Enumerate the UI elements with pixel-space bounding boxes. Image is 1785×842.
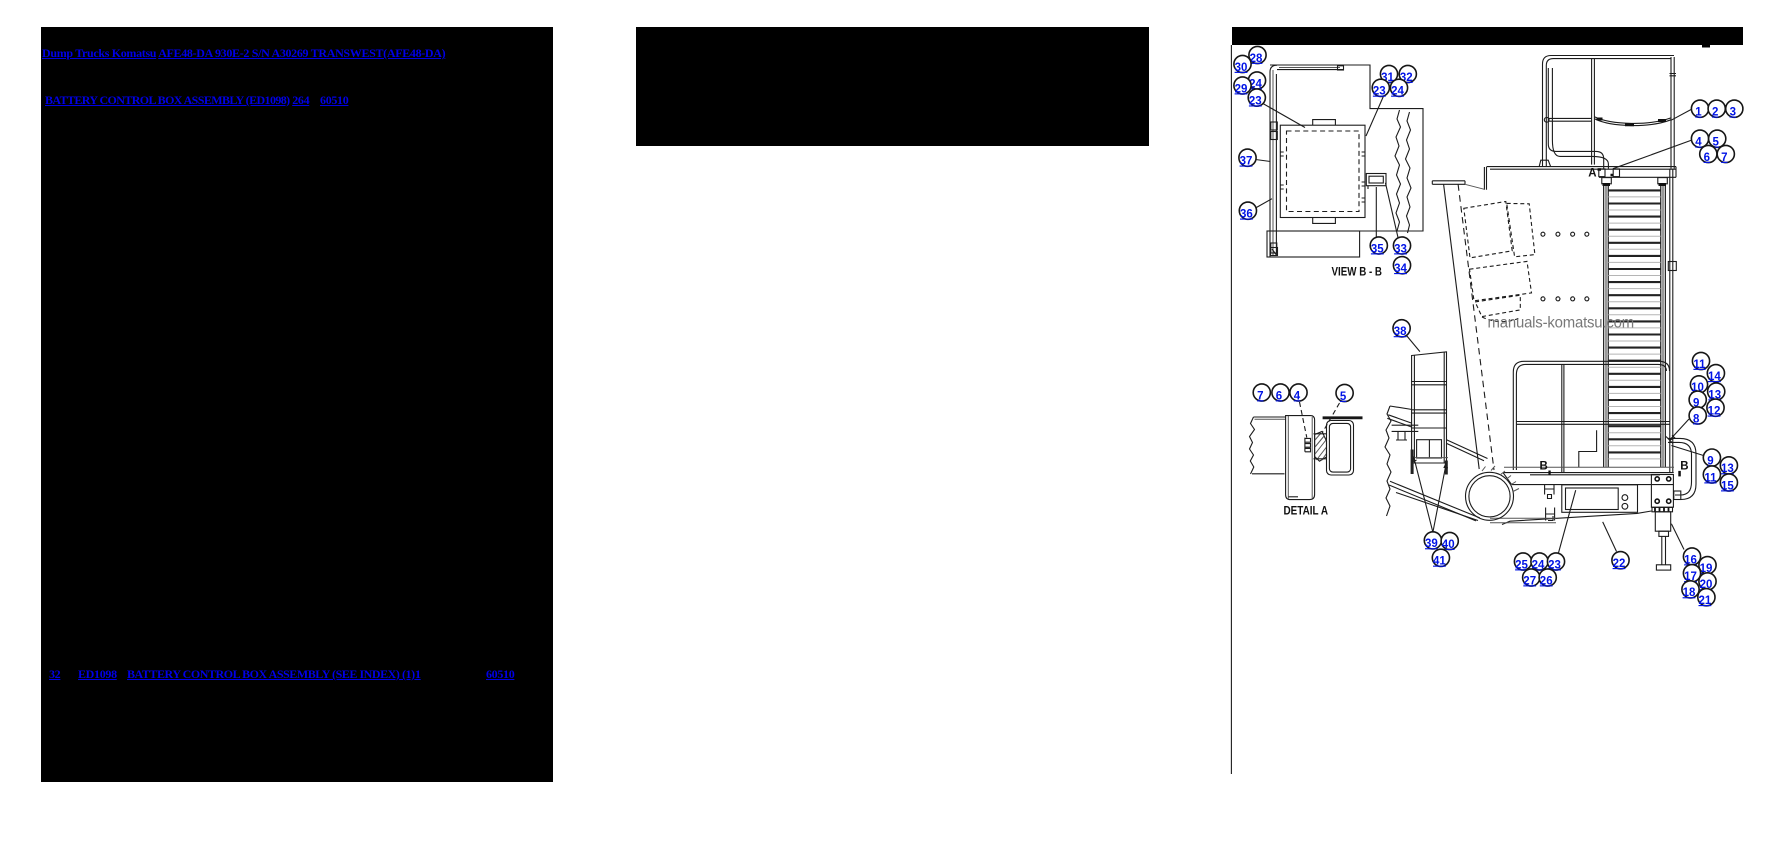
svg-text:8: 8 [1693, 413, 1700, 425]
callout 38 [1393, 320, 1410, 338]
right frame clamp [1668, 262, 1676, 271]
svg-text:11: 11 [1704, 472, 1717, 484]
extra frame rail [1396, 493, 1478, 521]
callout 18 [1682, 581, 1699, 599]
callout 21 [1698, 589, 1715, 607]
tow hook outer [1668, 438, 1696, 499]
jack body [1655, 512, 1670, 531]
callout 36 [1239, 202, 1256, 220]
leader 38 [1407, 336, 1420, 352]
callout 23 [1248, 89, 1265, 107]
svg-text:1: 1 [1695, 107, 1702, 119]
svg-text:22: 22 [1613, 558, 1626, 570]
svg-text:41: 41 [1433, 556, 1446, 568]
callout 30 [1234, 55, 1251, 73]
callout 34 [1393, 257, 1410, 275]
callout 4d [1290, 384, 1307, 402]
leader to box right top [1366, 95, 1384, 136]
svg-text:18: 18 [1683, 587, 1696, 599]
svg-text:7: 7 [1721, 152, 1727, 164]
hub circle [1466, 472, 1514, 520]
deck surface line [1504, 466, 1674, 468]
torn edge wavy lines [1395, 110, 1401, 231]
svg-text:DETAIL A: DETAIL A [1284, 506, 1329, 518]
mid rail [1548, 117, 1592, 119]
callout 1 [1691, 100, 1708, 118]
svg-text:12: 12 [1708, 406, 1721, 418]
drawing area left border [1230, 45, 1232, 774]
bolt row 2 [1541, 297, 1589, 301]
body panel dashed A [1464, 202, 1512, 258]
svg-text:27: 27 [1523, 575, 1536, 587]
svg-text:34: 34 [1394, 263, 1407, 275]
detail A torn panel bottom [1252, 473, 1285, 475]
leader 23c [1559, 490, 1576, 553]
VIEW B-B panel outline [1267, 65, 1423, 231]
parts table row [49, 667, 60, 681]
svg-text:4: 4 [1294, 390, 1301, 402]
VIEW B-B left channel [1270, 65, 1277, 257]
lower bracket [1546, 508, 1555, 521]
callout 23c [1547, 553, 1564, 571]
svg-text:6: 6 [1704, 152, 1710, 164]
jack stem [1661, 536, 1663, 564]
drooping cable [1594, 119, 1671, 126]
callout 7 [1717, 145, 1734, 163]
callout 13b [1720, 457, 1737, 475]
callout 3 [1726, 100, 1743, 118]
deck T bracket [1545, 485, 1554, 499]
deck hinge blocks [1599, 169, 1605, 177]
left bracket [1392, 425, 1419, 440]
ladder light lines [1608, 197, 1660, 459]
gray frame rails [1490, 517, 1556, 519]
leader 5d [1323, 403, 1340, 433]
callout 40 [1441, 532, 1458, 550]
leader 8 [1666, 419, 1689, 444]
svg-text:23: 23 [1373, 86, 1386, 98]
detail A hatched wedge [1315, 432, 1327, 462]
callout 28 [1249, 46, 1266, 64]
right rail [1670, 57, 1672, 169]
detail A latch [1305, 438, 1311, 452]
callout 25 [1514, 553, 1531, 571]
svg-text:30: 30 [1235, 62, 1248, 74]
mid post [1591, 59, 1593, 165]
callout 24c [1531, 553, 1548, 571]
svg-text:39: 39 [1425, 538, 1438, 550]
detail A door plate [1286, 416, 1315, 500]
box edge pin ticks [1280, 152, 1365, 202]
svg-text:26: 26 [1540, 575, 1553, 587]
svg-text:23: 23 [1249, 95, 1262, 107]
callout 6d [1272, 384, 1289, 402]
middle black panel [636, 27, 1149, 146]
bumper plate [1651, 475, 1673, 508]
leader 33 [1385, 183, 1398, 238]
svg-text:29: 29 [1235, 83, 1248, 95]
callout 12 [1707, 399, 1724, 417]
inner handrail loop outer [1548, 68, 1603, 169]
callout 11 [1692, 352, 1709, 370]
callout 17 [1683, 565, 1700, 583]
callout 14 [1707, 365, 1724, 383]
left black panel [41, 27, 553, 782]
breadcrumb link line 1 [42, 46, 445, 60]
inner handrail loop inner [1552, 68, 1608, 169]
body panel small bottom [1475, 295, 1520, 316]
connector box [1366, 174, 1386, 186]
battery box outline [1280, 125, 1365, 217]
callout 33 [1393, 237, 1410, 255]
lower mid rail [1516, 421, 1669, 423]
svg-text:37: 37 [1240, 156, 1253, 168]
battery box bottom tab [1313, 218, 1336, 224]
callout 13 [1708, 383, 1725, 401]
leader 37 [1256, 160, 1271, 162]
callout 11b [1703, 466, 1720, 484]
svg-text:36: 36 [1240, 209, 1253, 221]
lower handrail mid post [1561, 364, 1563, 472]
callout 23b [1372, 79, 1389, 97]
ladder left rail [1603, 183, 1605, 467]
svg-text:15: 15 [1721, 480, 1734, 492]
callout 24 [1248, 72, 1265, 90]
break marks on channel [1271, 122, 1278, 130]
callout 9b [1703, 449, 1720, 467]
svg-text:VIEW B - B: VIEW B - B [1332, 267, 1383, 279]
tow hook tab [1674, 491, 1681, 500]
callout 26 [1539, 569, 1556, 587]
bolt row 1 [1541, 232, 1589, 236]
callout 16 [1683, 548, 1700, 566]
detail A stop box inner [1329, 423, 1350, 472]
leader to box top [1262, 103, 1305, 128]
frame rail upper [1388, 415, 1487, 459]
leader 1 [1671, 109, 1692, 120]
body panel dashed C [1470, 261, 1532, 300]
callout 9 [1689, 391, 1706, 409]
frame rail lower [1390, 481, 1480, 518]
callout 39 [1424, 532, 1441, 550]
callout 4 [1691, 130, 1708, 148]
body panel dashed B [1507, 203, 1535, 256]
leader 36 [1256, 199, 1273, 208]
upper handrail outer [1543, 56, 1675, 167]
svg-text:3: 3 [1730, 107, 1736, 119]
leader 40 [1433, 463, 1448, 532]
svg-text:33: 33 [1394, 243, 1407, 255]
battery box dashed inner [1287, 131, 1360, 212]
VIEW B-B top channel [1277, 69, 1343, 71]
detail A torn panel top [1254, 416, 1286, 418]
jack foot [1656, 565, 1670, 570]
callout 6 [1700, 145, 1717, 163]
detail A arm lines [1314, 434, 1327, 459]
callout 5d [1336, 384, 1353, 402]
ladder right rail [1660, 183, 1662, 467]
tow hook inner [1668, 442, 1692, 495]
svg-text:B: B [1540, 460, 1548, 472]
svg-text:7: 7 [1257, 390, 1263, 402]
under-deck slide outline [1562, 485, 1638, 513]
bottom panel [1267, 231, 1360, 257]
lower handrail inner [1516, 364, 1666, 470]
cabinet [1412, 352, 1447, 463]
callout 35 [1370, 237, 1387, 255]
leader 4 [1613, 140, 1692, 169]
svg-text:24: 24 [1391, 86, 1404, 98]
bumper bolt band [1652, 507, 1673, 511]
svg-text:35: 35 [1371, 243, 1384, 255]
callout 15 [1720, 474, 1737, 492]
chute T-bar [1432, 180, 1465, 182]
chute left edge [1444, 184, 1480, 469]
svg-text:B: B [1680, 460, 1688, 472]
detail A top bar [1323, 416, 1363, 419]
bottom contour [1502, 511, 1651, 525]
right frame lines [1669, 169, 1671, 472]
deck band [1503, 472, 1674, 474]
ladder rungs [1608, 190, 1660, 452]
torn left edge [1385, 406, 1391, 516]
handrail foot [1539, 160, 1550, 166]
step cutout [1579, 430, 1597, 467]
svg-text:4: 4 [1695, 137, 1702, 149]
ladder top brackets [1602, 178, 1612, 184]
cable clips [1597, 119, 1667, 125]
svg-text:A: A [1588, 168, 1596, 180]
callout 5 [1709, 130, 1726, 148]
callout 24b [1390, 79, 1407, 97]
callout 10 [1690, 376, 1707, 394]
platform deck lines [1487, 166, 1677, 168]
chute right edge dashed [1458, 184, 1494, 470]
callout 20 [1699, 573, 1716, 591]
callout 2 [1708, 100, 1725, 118]
leader 9b [1671, 446, 1703, 456]
svg-text:14: 14 [1708, 371, 1721, 383]
leader 39 [1413, 457, 1433, 533]
leader 4d [1300, 402, 1307, 438]
under-deck box [1566, 488, 1619, 510]
right rail joint tick [1670, 74, 1677, 76]
callout 19 [1699, 557, 1716, 575]
leader 22 [1603, 522, 1617, 552]
cabinet lower door [1417, 440, 1442, 458]
title link line 2 [45, 93, 348, 107]
callout 8 [1689, 407, 1706, 425]
svg-text:5: 5 [1340, 391, 1347, 403]
callout 37 [1239, 149, 1256, 167]
chute verticals [1484, 167, 1486, 190]
svg-text:21: 21 [1699, 595, 1712, 607]
rail joint [1544, 117, 1549, 122]
leader 16 [1671, 524, 1684, 550]
callout 31 [1380, 65, 1397, 83]
leader 35 [1375, 187, 1377, 237]
callout 7d [1253, 384, 1270, 402]
svg-text:manuals-komatsu.com: manuals-komatsu.com [1488, 315, 1635, 332]
callout 29 [1234, 77, 1251, 95]
top black bar [1232, 27, 1743, 45]
callout 22 [1612, 552, 1629, 570]
detail A stop box outer [1327, 421, 1354, 476]
svg-text:38: 38 [1394, 326, 1407, 338]
hub hatch [1482, 466, 1519, 492]
callout 32 [1399, 65, 1416, 83]
battery box top tab [1313, 120, 1336, 125]
svg-text:11: 11 [1693, 359, 1706, 371]
upper handrail inner [1546, 59, 1671, 167]
svg-text:2: 2 [1712, 107, 1718, 119]
callout 41 [1432, 549, 1449, 567]
svg-text:6: 6 [1276, 390, 1282, 402]
callout 27 [1523, 569, 1540, 587]
cabinet hanger bars [1411, 450, 1414, 475]
lower handrail outer [1513, 361, 1669, 470]
detail A torn jagged edge [1250, 417, 1255, 474]
